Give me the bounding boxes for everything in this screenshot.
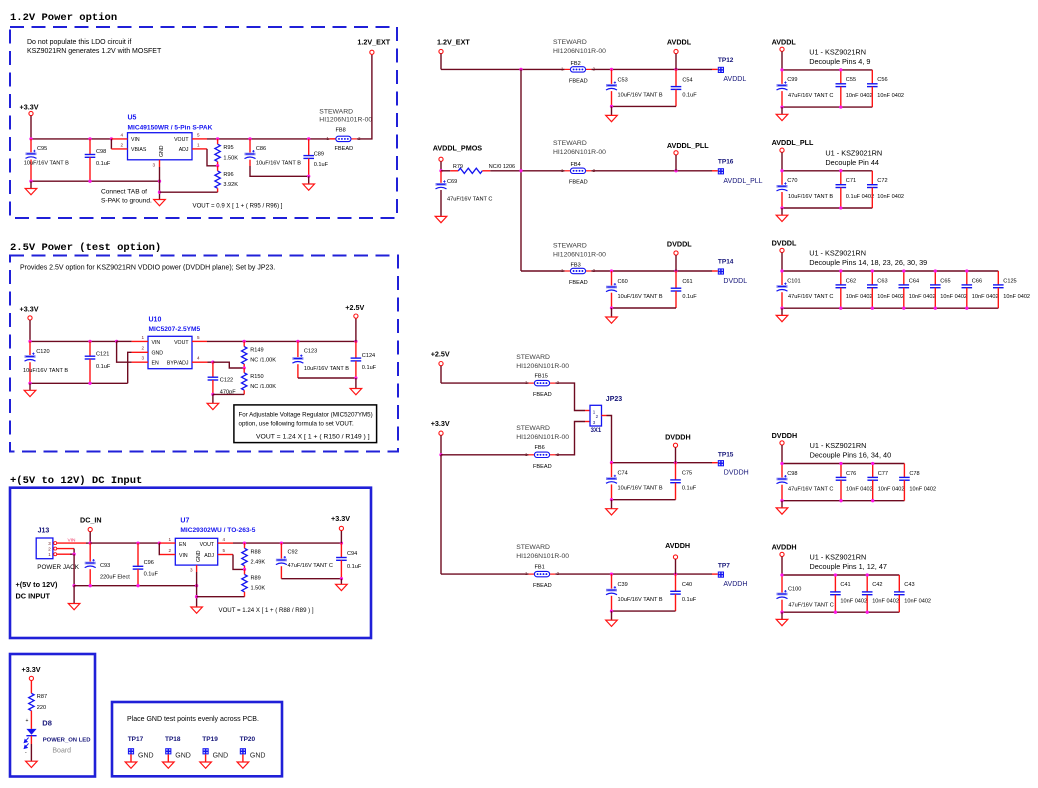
svg-text:0.1uF: 0.1uF: [362, 365, 377, 371]
wire DVDDH rail: [612, 462, 713, 464]
capacitor C64: [903, 271, 905, 285]
wire AVDDL rail: [441, 68, 565, 70]
wire EN tie to VIN: [117, 341, 132, 362]
svg-text:5: 5: [223, 548, 226, 553]
svg-text:10nF 0402: 10nF 0402: [846, 294, 873, 300]
capacitor C39: [611, 574, 613, 589]
svg-text:+3.3V: +3.3V: [22, 665, 41, 674]
svg-text:0.1uF: 0.1uF: [682, 486, 697, 492]
capacitor C60: [611, 271, 613, 286]
svg-text:C95: C95: [37, 146, 47, 152]
ground decouple DVDDH: [781, 501, 783, 508]
svg-text:AVDDL_PLL: AVDDL_PLL: [667, 141, 709, 150]
svg-text:C40: C40: [682, 582, 692, 588]
svg-text:STEWARD: STEWARD: [553, 140, 587, 147]
svg-text:0.1uF: 0.1uF: [682, 294, 697, 300]
wire jack pin1: [57, 553, 70, 555]
svg-text:STEWARD: STEWARD: [319, 109, 353, 116]
svg-text:47uF/16V TANT C: 47uF/16V TANT C: [788, 294, 833, 300]
ground under C60: [611, 308, 613, 317]
wire decouple bottom rail: [782, 611, 899, 613]
svg-text:220: 220: [37, 705, 46, 711]
svg-text:Decouple Pin 44: Decouple Pin 44: [825, 158, 879, 167]
power symbol +3.3V out: [340, 531, 342, 544]
svg-text:NC /1.00K: NC /1.00K: [250, 358, 276, 364]
wire C123 bottom rail: [298, 377, 356, 379]
capacitor C72: [871, 171, 873, 185]
junction: [29, 137, 32, 140]
svg-text:MIC49150WR / 5-Pin S-PAK: MIC49150WR / 5-Pin S-PAK: [128, 124, 213, 131]
svg-text:GND: GND: [152, 351, 164, 357]
capacitor C77: [872, 464, 874, 478]
svg-text:U10: U10: [149, 317, 162, 324]
wire top rail: [31, 138, 111, 140]
svg-text:C65: C65: [940, 278, 950, 284]
capacitor C100 tant: [781, 575, 783, 593]
svg-text:Do not populate this LDO circu: Do not populate this LDO circuit if: [27, 39, 131, 46]
pin 4 BYP/ADJ: [192, 361, 208, 363]
resistor R150: [243, 368, 245, 373]
capacitor C42: [866, 575, 868, 592]
wire R96 to ground rail: [160, 191, 218, 193]
svg-text:10nF 0402: 10nF 0402: [972, 294, 999, 300]
svg-text:FB6: FB6: [535, 445, 545, 451]
svg-text:STEWARD: STEWARD: [553, 243, 587, 250]
svg-text:C71: C71: [846, 178, 856, 184]
svg-text:10uF/16V TANT B: 10uF/16V TANT B: [788, 194, 833, 200]
capacitor C122: [212, 362, 214, 377]
svg-text:0.1uF: 0.1uF: [96, 161, 111, 167]
svg-text:AVDDL: AVDDL: [667, 37, 692, 46]
svg-text:3: 3: [141, 356, 144, 361]
capacitor C70 tant: [781, 171, 783, 185]
svg-text:C76: C76: [846, 471, 856, 477]
ground decouple DVDDL: [781, 308, 783, 315]
svg-text:3: 3: [152, 163, 155, 168]
svg-text:GND: GND: [196, 550, 202, 562]
ferrite bead FB6: [525, 452, 560, 458]
wire +3.3V to FB1: [441, 573, 529, 575]
svg-text:FBEAD: FBEAD: [569, 78, 588, 84]
wire jack pin2: [57, 548, 74, 550]
svg-text:AVDDH: AVDDH: [723, 581, 747, 588]
svg-text:C74: C74: [618, 471, 628, 477]
svg-text:DC INPUT: DC INPUT: [16, 592, 51, 601]
svg-text:0.1uF: 0.1uF: [682, 597, 697, 603]
svg-text:10nF 0402: 10nF 0402: [878, 487, 905, 493]
ground under C39: [611, 611, 613, 620]
svg-text:R95: R95: [223, 145, 233, 151]
wire bottom rail: [30, 382, 128, 384]
svg-text:Decouple Pins 4, 9: Decouple Pins 4, 9: [809, 57, 870, 66]
svg-text:2: 2: [120, 142, 123, 147]
svg-text:10nF 0402: 10nF 0402: [872, 598, 899, 604]
svg-text:4: 4: [223, 537, 226, 542]
svg-text:U1 - KSZ9021RN: U1 - KSZ9021RN: [825, 148, 882, 157]
svg-text:1.2V_EXT: 1.2V_EXT: [437, 38, 470, 47]
svg-text:D8: D8: [42, 718, 52, 727]
resistor R89: [244, 569, 246, 574]
svg-text:4: 4: [197, 356, 200, 361]
ground decouple AVDDL: [781, 107, 783, 114]
svg-text:C94: C94: [347, 551, 357, 557]
svg-text:C123: C123: [304, 349, 317, 355]
svg-text:TP7: TP7: [718, 562, 730, 569]
svg-text:GND: GND: [159, 145, 165, 157]
vertical bus 1.2V_EXT: [520, 69, 522, 271]
ground under C89: [307, 175, 310, 178]
svg-text:10nF 0402: 10nF 0402: [1003, 294, 1030, 300]
wire FB8 to 1.2V_EXT: [357, 54, 372, 138]
ferrite bead FB4: [561, 168, 596, 174]
ferrite bead FB1: [525, 571, 560, 577]
svg-text:ADJ: ADJ: [204, 553, 214, 559]
wire ADJ to divider: [207, 149, 218, 166]
capacitor C95: [30, 139, 32, 152]
capacitor C69: [440, 171, 442, 183]
svg-text:TP19: TP19: [202, 736, 218, 743]
ground decouple AVDDH: [781, 612, 783, 619]
wire decouple bottom rail: [782, 500, 904, 502]
wire VOUT rail: [233, 542, 341, 544]
svg-text:47uF/16V TANT C: 47uF/16V TANT C: [788, 487, 833, 493]
svg-text:DC_IN: DC_IN: [80, 515, 102, 524]
capacitor C120: [29, 341, 31, 355]
svg-text:AVDDH: AVDDH: [665, 541, 690, 550]
svg-text:AVDDH: AVDDH: [772, 542, 797, 551]
pin 5 VOUT: [192, 340, 207, 342]
svg-text:FBEAD: FBEAD: [533, 583, 552, 589]
svg-text:POWER_ON LED: POWER_ON LED: [43, 738, 91, 744]
wire FB6 to JP23 pin3: [555, 422, 585, 455]
capacitor C71: [840, 171, 842, 185]
svg-text:GND: GND: [138, 753, 154, 760]
svg-text:DVDDH: DVDDH: [665, 433, 691, 442]
svg-text:R89: R89: [251, 576, 261, 582]
capacitor C123: [297, 341, 299, 357]
svg-text:+3.3V: +3.3V: [431, 419, 450, 428]
svg-text:STEWARD: STEWARD: [553, 39, 587, 46]
dashed section border 1.2V Power option: [10, 27, 397, 218]
capacitor C92: [280, 543, 282, 558]
svg-text:10nF 0402: 10nF 0402: [840, 598, 867, 604]
svg-text:FBEAD: FBEAD: [533, 392, 552, 398]
capacitor C75: [675, 463, 677, 480]
svg-text:J13: J13: [38, 528, 50, 535]
svg-text:HI1206N101R-00: HI1206N101R-00: [516, 363, 569, 370]
svg-text:C60: C60: [618, 279, 628, 285]
svg-text:U1 - KSZ9021RN: U1 - KSZ9021RN: [809, 48, 866, 57]
capacitor C53: [611, 69, 613, 84]
pin 1 ADJ: [192, 148, 207, 150]
svg-text:C62: C62: [846, 278, 856, 284]
svg-text:U5: U5: [128, 115, 137, 122]
svg-text:VIN: VIN: [131, 137, 140, 143]
wire ADJ to divider: [233, 555, 245, 570]
resistor R96: [217, 166, 219, 171]
svg-text:TP17: TP17: [128, 736, 144, 743]
wire R89 bottom to U7 gnd: [197, 596, 245, 598]
wire GND pin to rail: [196, 572, 198, 607]
svg-text:10uF/16V TANT B: 10uF/16V TANT B: [618, 597, 663, 603]
svg-text:10uF/16V TANT B: 10uF/16V TANT B: [23, 368, 68, 374]
pin 1 EN: [159, 542, 175, 544]
ferrite bead FB15: [525, 380, 560, 386]
svg-text:MIC29302WU / TO-263-5: MIC29302WU / TO-263-5: [180, 527, 255, 534]
ferrite bead FB8: [330, 138, 336, 140]
svg-text:STEWARD: STEWARD: [516, 425, 550, 432]
ground under C74: [611, 500, 613, 509]
svg-text:U1 - KSZ9021RN: U1 - KSZ9021RN: [809, 249, 866, 258]
wire bottom rail: [612, 105, 677, 107]
capacitor C98: [89, 139, 91, 154]
solid border LED box: [10, 654, 95, 777]
svg-text:220uF Elect: 220uF Elect: [100, 575, 130, 581]
solid border GND testpoint box: [112, 702, 282, 776]
svg-text:+3.3V: +3.3V: [20, 305, 39, 314]
wire +3.3V down: [30, 116, 32, 139]
svg-text:C42: C42: [872, 582, 882, 588]
wire FB3 to TP14: [591, 270, 712, 272]
svg-text:HI1206N101R-00: HI1206N101R-00: [516, 434, 569, 441]
wire JP23 pin2 to DVDDH rail: [602, 415, 607, 417]
pin 2 GND: [132, 351, 148, 353]
wire +3.3V down: [440, 435, 442, 455]
svg-text:DVDDL: DVDDL: [667, 239, 692, 248]
svg-text:0.1uF: 0.1uF: [144, 572, 159, 578]
svg-text:TP18: TP18: [165, 736, 181, 743]
svg-text:FBEAD: FBEAD: [533, 464, 552, 470]
svg-text:C43: C43: [904, 582, 914, 588]
wire ground rail: [74, 585, 197, 587]
solid section border DC Input: [10, 488, 371, 638]
wire decouple bottom rail: [782, 106, 872, 108]
svg-text:47uF/16V TANT C: 47uF/16V TANT C: [788, 603, 833, 609]
capacitor C41: [834, 575, 836, 592]
wire top rail: [30, 340, 117, 342]
svg-text:R87: R87: [37, 694, 47, 700]
svg-text:AVDDL_PLL: AVDDL_PLL: [772, 138, 814, 147]
svg-text:3.92K: 3.92K: [223, 182, 238, 188]
svg-text:U1 - KSZ9021RN: U1 - KSZ9021RN: [810, 441, 867, 450]
wire 1.2V_EXT down: [440, 54, 442, 70]
svg-text:STEWARD: STEWARD: [516, 354, 550, 361]
svg-text:1: 1: [197, 142, 200, 147]
ground under U5: [154, 200, 166, 206]
wire jack pin3 to DC_IN: [57, 542, 86, 544]
svg-text:HI1206N101R-00: HI1206N101R-00: [553, 48, 606, 55]
svg-text:10nF 0402: 10nF 0402: [877, 194, 904, 200]
capacitor C89: [308, 139, 310, 156]
svg-text:VBIAS: VBIAS: [131, 147, 147, 153]
svg-text:Board: Board: [52, 747, 71, 754]
capacitor C65: [934, 271, 936, 285]
svg-text:AVDDL: AVDDL: [723, 76, 746, 83]
wire C122 ground: [211, 393, 214, 396]
svg-text:VOUT = 0.9 X [ 1 + ( R95 / R96: VOUT = 0.9 X [ 1 + ( R95 / R96) ]: [193, 203, 283, 210]
wire decouple top rail: [782, 463, 904, 465]
ground under C120: [29, 383, 31, 390]
svg-text:FBEAD: FBEAD: [569, 280, 588, 286]
svg-text:10nF 0402: 10nF 0402: [846, 487, 873, 493]
wire +2.5V to FB15: [440, 366, 442, 383]
capacitor C93 electrolytic: [89, 543, 91, 561]
svg-text:STEWARD: STEWARD: [516, 544, 550, 551]
svg-text:+3.3V: +3.3V: [20, 103, 39, 112]
svg-text:3X1: 3X1: [591, 428, 602, 434]
svg-text:10uF/16V TANT B: 10uF/16V TANT B: [304, 366, 349, 372]
svg-text:U1 - KSZ9021RN: U1 - KSZ9021RN: [810, 553, 867, 562]
svg-text:For Adjustable Voltage Regulat: For Adjustable Voltage Regulator (MIC520…: [239, 412, 373, 419]
svg-text:FBEAD: FBEAD: [335, 146, 354, 152]
wire decouple bottom rail: [782, 207, 872, 209]
svg-text:C41: C41: [840, 582, 850, 588]
wire GND pin down to rail: [128, 352, 132, 383]
svg-text:1: 1: [168, 537, 171, 542]
svg-text:C99: C99: [787, 77, 797, 83]
svg-text:1.50K: 1.50K: [223, 155, 238, 161]
wire bottom rail: [612, 610, 676, 612]
svg-text:FB3: FB3: [571, 262, 581, 268]
capacitor C121: [89, 341, 91, 356]
capacitor C54: [675, 69, 677, 86]
svg-text:FB2: FB2: [571, 61, 581, 67]
resistor R95: [217, 139, 219, 144]
svg-text:1: 1: [141, 335, 144, 340]
wire R150 bottom to C122: [213, 393, 244, 395]
capacitor C96: [137, 543, 139, 566]
svg-text:FB15: FB15: [535, 374, 548, 380]
wire C86 bottom rail: [250, 166, 309, 176]
svg-text:Provides 2.5V option for KSZ90: Provides 2.5V option for KSZ9021RN VDDIO…: [20, 265, 275, 272]
svg-text:47uF/16V TANT C: 47uF/16V TANT C: [788, 93, 833, 99]
wire FB4 to TP16: [591, 170, 712, 172]
svg-text:10nF 0402: 10nF 0402: [940, 294, 967, 300]
svg-text:TP20: TP20: [240, 736, 256, 743]
resistor R87: [29, 693, 34, 710]
wire BYP junction: [208, 361, 213, 363]
capacitor C56: [871, 70, 873, 84]
wire FB15 to JP23 pin1: [555, 383, 585, 410]
svg-text:TP12: TP12: [718, 57, 734, 64]
svg-text:VOUT: VOUT: [174, 340, 189, 346]
ground LED: [26, 761, 38, 767]
svg-text:C64: C64: [909, 278, 919, 284]
svg-text:C66: C66: [972, 278, 982, 284]
svg-text:TP15: TP15: [718, 451, 734, 458]
svg-text:+(5V to 12V) DC Input: +(5V to 12V) DC Input: [10, 475, 142, 487]
capacitor C76: [840, 464, 842, 478]
svg-text:+3.3V: +3.3V: [331, 514, 350, 523]
svg-text:MIC5207-2.5YM5: MIC5207-2.5YM5: [149, 326, 201, 333]
capacitor C125: [997, 271, 999, 285]
svg-text:Decouple Pins 1, 12, 47: Decouple Pins 1, 12, 47: [810, 562, 887, 571]
svg-text:Decouple Pins 16, 34, 40: Decouple Pins 16, 34, 40: [810, 451, 892, 460]
wire pin1 net to ground rail: [73, 554, 75, 586]
svg-text:C69: C69: [447, 179, 457, 185]
svg-text:option, use following formula: option, use following formula to set VOU…: [239, 420, 354, 427]
capacitor C99 tant: [781, 70, 783, 84]
capacitor C62: [840, 271, 842, 285]
svg-text:10uF/16V TANT B: 10uF/16V TANT B: [24, 161, 69, 167]
svg-text:10nF 0402: 10nF 0402: [904, 598, 931, 604]
svg-text:DVDDH: DVDDH: [724, 470, 749, 477]
svg-text:C77: C77: [878, 471, 888, 477]
svg-text:VOUT = 1.24 X [ 1 + ( R88 / R8: VOUT = 1.24 X [ 1 + ( R88 / R89 ) ]: [219, 607, 314, 614]
svg-text:C96: C96: [144, 560, 154, 566]
resistor R88: [244, 543, 246, 548]
svg-text:VIN: VIN: [179, 553, 188, 559]
svg-text:HI1206N101R-00: HI1206N101R-00: [516, 553, 569, 560]
svg-text:10nF 0402: 10nF 0402: [877, 93, 904, 99]
capacitor C74: [611, 463, 613, 478]
svg-text:JP23: JP23: [606, 396, 622, 403]
wire to R87: [30, 681, 32, 694]
svg-text:3: 3: [190, 568, 193, 573]
svg-text:C98: C98: [96, 149, 106, 155]
svg-text:FB8: FB8: [336, 127, 346, 133]
svg-text:DVDDL: DVDDL: [723, 278, 747, 285]
ground under C122: [207, 403, 219, 409]
ground under C53: [611, 106, 613, 115]
ground under C124: [354, 376, 357, 379]
svg-text:R79: R79: [453, 164, 463, 170]
wire VOUT rail: [207, 138, 330, 140]
svg-text:2: 2: [168, 548, 171, 553]
svg-text:47uF/16V TANT C: 47uF/16V TANT C: [288, 563, 333, 569]
svg-text:GND: GND: [213, 753, 229, 760]
wire FB1 to TP7: [555, 573, 712, 575]
svg-text:GND: GND: [250, 753, 266, 760]
svg-text:C61: C61: [682, 279, 692, 285]
svg-text:10uF/16V TANT B: 10uF/16V TANT B: [618, 92, 663, 98]
resistor R149: [243, 341, 245, 346]
capacitor C55: [840, 70, 842, 84]
svg-text:C125: C125: [1003, 278, 1016, 284]
svg-text:C100: C100: [788, 587, 801, 593]
wire decouple top rail: [782, 574, 899, 576]
svg-text:FBEAD: FBEAD: [569, 180, 588, 186]
svg-text:POWER JACK: POWER JACK: [37, 564, 79, 571]
svg-text:+: +: [26, 718, 29, 724]
svg-text:R96: R96: [223, 172, 233, 178]
svg-text:+2.5V: +2.5V: [345, 303, 364, 312]
svg-text:C120: C120: [36, 349, 49, 355]
svg-text:AVDDL_PMOS: AVDDL_PMOS: [433, 144, 483, 153]
svg-text:0.1uF: 0.1uF: [682, 92, 697, 98]
ferrite bead FB2: [561, 66, 596, 72]
svg-text:HI1206N101R-00: HI1206N101R-00: [553, 149, 606, 156]
capacitor C124: [355, 341, 357, 358]
wire bottom rail: [612, 307, 677, 309]
svg-text:VIN: VIN: [152, 340, 161, 346]
wire input rail: [90, 542, 159, 544]
svg-text:C92: C92: [288, 549, 298, 555]
svg-text:10nF 0402: 10nF 0402: [877, 294, 904, 300]
svg-text:C86: C86: [256, 146, 266, 152]
wire +3.3V down: [29, 320, 31, 341]
capacitor C61: [675, 271, 677, 288]
svg-text:R149: R149: [250, 348, 263, 354]
capacitor C98 tant: [781, 464, 783, 478]
pin 2 VIN: [158, 543, 161, 554]
pin 3 GND: [159, 160, 161, 167]
svg-text:2.49K: 2.49K: [251, 559, 266, 565]
wire BYP to divider mid: [213, 362, 244, 368]
svg-text:FB4: FB4: [571, 162, 581, 168]
svg-text:EN: EN: [152, 361, 159, 367]
svg-text:AVDDL_PLL: AVDDL_PLL: [723, 178, 762, 185]
